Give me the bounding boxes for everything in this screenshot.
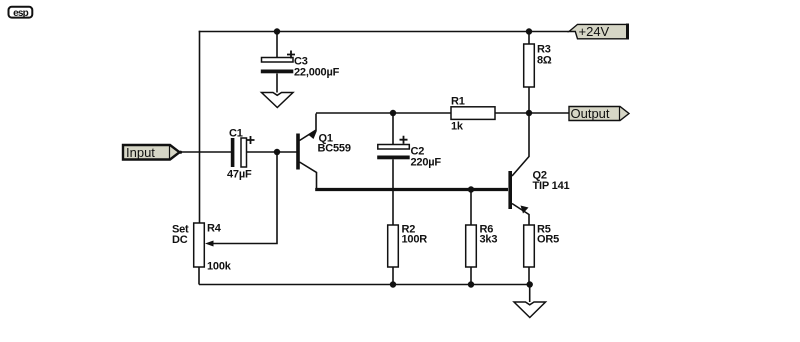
svg-text:BC559: BC559 (318, 143, 351, 155)
wire top rail (199, 31, 569, 33)
power tag +24V (569, 24, 628, 40)
node output (526, 110, 532, 116)
wire C1 to Q1 base (247, 151, 297, 153)
node C2 top (390, 110, 396, 116)
esp logo (9, 7, 33, 19)
wire input to C1 (181, 151, 231, 153)
svg-text:Input: Input (126, 145, 155, 160)
svg-text:+24V: +24V (579, 24, 610, 39)
node top rail / C3 (274, 28, 280, 34)
svg-text:22,000µF: 22,000µF (294, 67, 340, 79)
wire bottom rail (199, 284, 530, 286)
svg-text:DC: DC (172, 234, 188, 246)
svg-text:OR5: OR5 (537, 234, 559, 246)
node bus / R6 (468, 186, 474, 192)
wire base node to R4 wiper (212, 152, 277, 244)
svg-text:esp: esp (13, 8, 29, 19)
svg-text:100k: 100k (207, 261, 232, 273)
svg-text:100R: 100R (402, 234, 428, 246)
wire R1 to output node (495, 112, 529, 114)
svg-text:TIP 141: TIP 141 (533, 180, 570, 192)
node Q1 base (274, 149, 280, 155)
resistor R1 (451, 96, 495, 133)
svg-text:3k3: 3k3 (480, 234, 498, 246)
wire C2 to R2 (392, 159, 394, 225)
resistor R2 (388, 224, 428, 285)
potentiometer R4 (172, 223, 232, 285)
svg-text:R4: R4 (207, 223, 222, 235)
svg-text:1k: 1k (451, 121, 464, 133)
svg-text:C1: C1 (229, 128, 243, 140)
svg-text:Output: Output (571, 106, 610, 121)
wire Q1 emitter node rail (316, 112, 451, 114)
resistor R3 (524, 32, 552, 114)
ground (main) (514, 285, 546, 318)
svg-text:47µF: 47µF (227, 169, 252, 181)
wire left rail (199, 31, 201, 223)
svg-text:R1: R1 (451, 96, 465, 108)
ground (below C3) (262, 93, 294, 108)
node top rail / R3 (526, 28, 532, 34)
transistor Q1 BC559 (296, 114, 351, 190)
node bottom rail / ground (527, 281, 533, 287)
resistor R6 (466, 190, 498, 285)
capacitor C3 (261, 32, 340, 93)
transistor Q2 TIP141 (508, 113, 569, 225)
capacitor C2 (377, 113, 441, 169)
wire output node to tag (529, 112, 569, 114)
node bottom rail / R2 (390, 281, 396, 287)
wire collector bus (thick) (315, 188, 508, 191)
node bottom rail / R6 (468, 281, 474, 287)
resistor R5 (524, 224, 559, 285)
tag Input (123, 145, 182, 160)
svg-text:8Ω: 8Ω (537, 55, 552, 67)
svg-text:220µF: 220µF (411, 157, 442, 169)
capacitor C1 (227, 128, 255, 181)
tag Output (569, 106, 629, 121)
